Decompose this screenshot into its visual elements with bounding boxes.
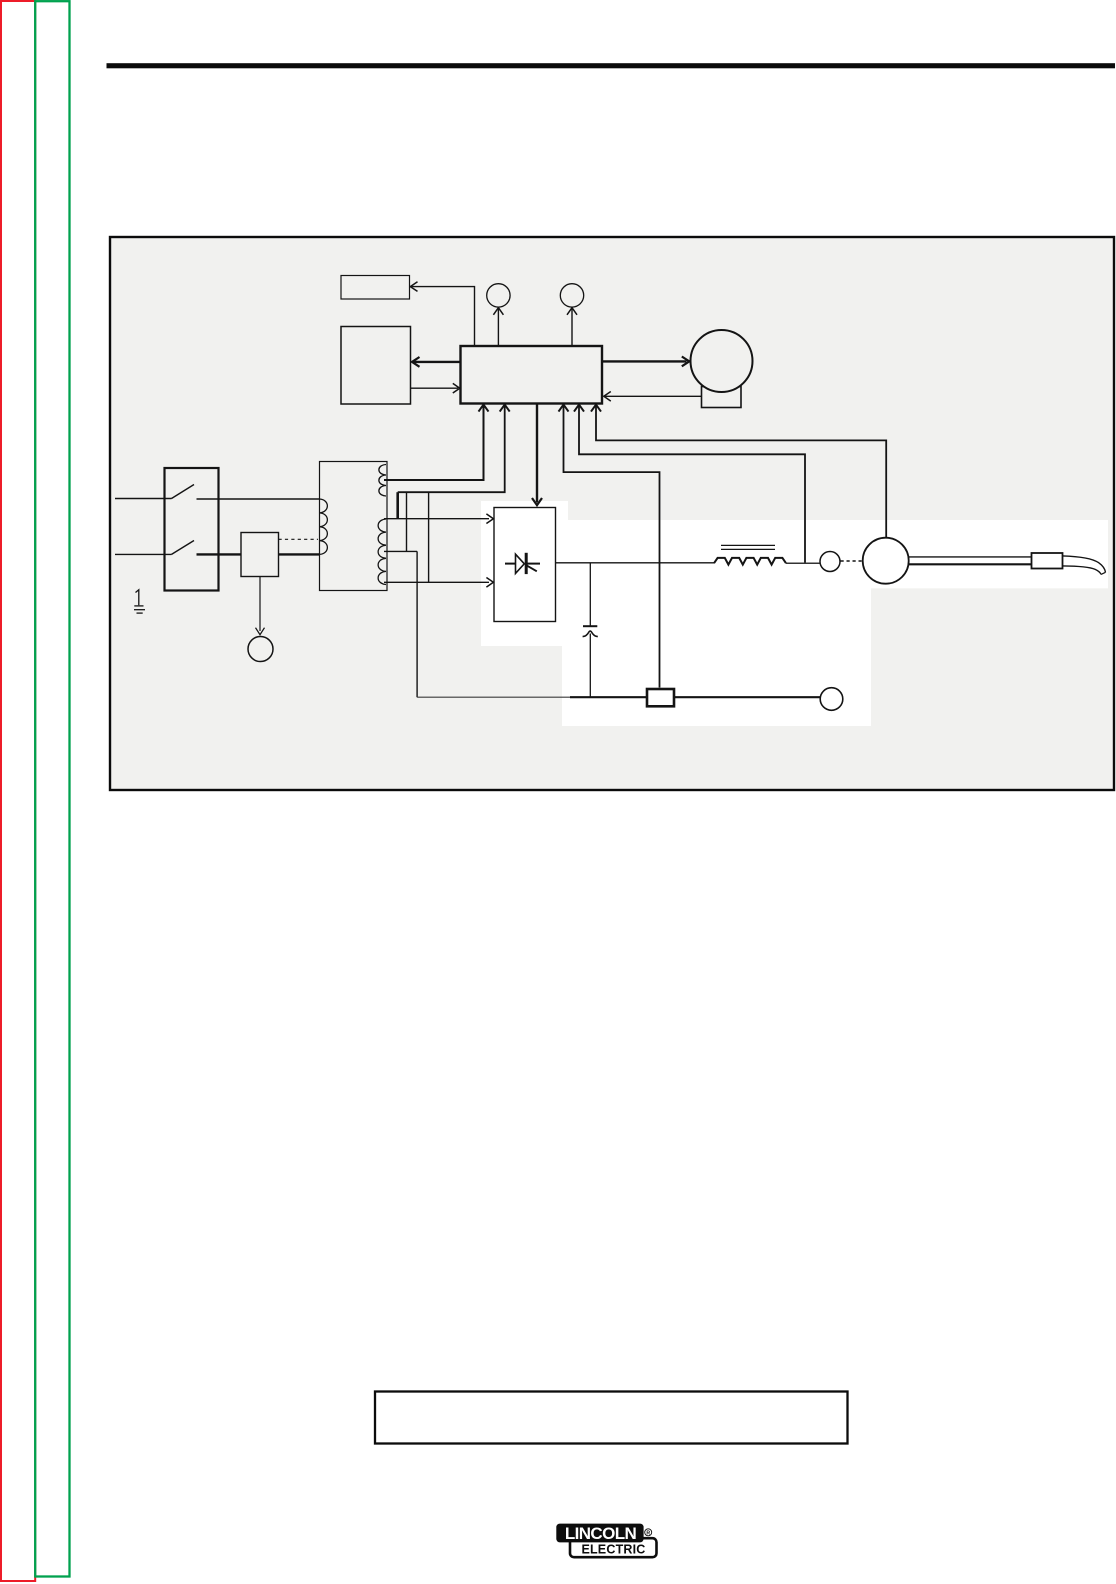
- gun cable bottom line: [908, 563, 1032, 565]
- wire drive roll circle: [863, 538, 909, 584]
- fan box: [241, 533, 279, 577]
- fan motor feed line: [259, 577, 261, 632]
- gun handle: [1032, 553, 1063, 569]
- wire choke to output stud: [786, 562, 820, 564]
- input line wire bottom: [115, 553, 172, 555]
- arrowhead into B2: [412, 357, 420, 367]
- thick arrow control board to wire feed motor: [603, 360, 687, 362]
- feedback wire 2: transformer tap to control board: [398, 406, 505, 493]
- transformer main secondary winding: [378, 519, 386, 584]
- dashed link stud to drive rolls: [841, 560, 863, 562]
- wire control board to box B1: [411, 287, 475, 346]
- motor circle: [691, 330, 753, 392]
- tach return wire motor to control board: [605, 395, 702, 397]
- green link column (Return to Master TOC): [35, 1, 69, 1576]
- svg-text:LINCOLN: LINCOLN: [565, 1524, 637, 1543]
- arrowhead into SCR top input: [486, 514, 493, 524]
- choke core line 2: [721, 548, 775, 550]
- thick wire switch to fan box: [197, 553, 242, 555]
- tap drop wire x406: [406, 492, 408, 551]
- work stud circle: [820, 688, 843, 711]
- arrowhead into control board right: [604, 392, 611, 402]
- transformer primary winding: [320, 499, 328, 554]
- thick wire fan box to transformer: [279, 553, 320, 555]
- arrowhead f1 up: [479, 405, 489, 412]
- arrowhead into SCR bottom input: [486, 578, 493, 588]
- choke core line 1: [721, 544, 775, 546]
- box B2 (left box): [341, 327, 411, 405]
- arrowhead down into fan motor: [256, 628, 265, 635]
- switch blade bottom: [172, 541, 195, 555]
- ELECTRIC box: [570, 1538, 657, 1557]
- output wire SCR to choke: [556, 562, 714, 564]
- arrowhead into lamp 2: [567, 308, 577, 315]
- secondary tap to SCR bottom input: [384, 581, 489, 583]
- arrowhead f2 up: [500, 405, 510, 412]
- thin bottom bus wire: [417, 696, 570, 698]
- current feedback wire: shunt up to control board: [564, 406, 660, 688]
- wire switch to transformer primary top: [197, 498, 320, 500]
- bottom bus wire to shunt: [570, 696, 647, 698]
- box B1 (top small box): [341, 276, 410, 300]
- transformer core box: [320, 462, 388, 591]
- SCR symbol: [505, 553, 540, 574]
- bottom empty note box: [375, 1392, 848, 1444]
- svg-text:R: R: [646, 1530, 650, 1536]
- gun nozzle: [1063, 556, 1106, 575]
- white label patch behind SCR bridge: [481, 501, 568, 646]
- thick arrow control board to box B2: [414, 361, 461, 363]
- tap drop wire x428: [428, 492, 430, 582]
- shunt box: [647, 689, 674, 706]
- motor tab box: [702, 387, 742, 408]
- input switch box: [165, 468, 219, 591]
- wire to lamp 1: [497, 309, 499, 347]
- arrowhead into B1: [410, 282, 417, 292]
- transformer auxiliary secondary winding: [379, 465, 386, 497]
- switch blade top: [172, 485, 195, 499]
- capacitor curved lower plate: [583, 631, 598, 637]
- capacitor top lead: [589, 563, 591, 626]
- diagram frame: [110, 237, 1114, 790]
- voltage feedback wire: output to control board: [579, 406, 805, 564]
- control PC board box: [461, 346, 603, 404]
- capacitor bottom lead: [589, 634, 591, 698]
- Lincoln Electric logo: [556, 1524, 656, 1558]
- secondary tap to SCR top input: [384, 518, 489, 520]
- LINCOLN badge: [556, 1524, 643, 1543]
- fan motor circle: [248, 637, 273, 662]
- red link column (Return to Section TOC): [1, 1, 35, 1581]
- thick tap drop at x=397.7: [396, 492, 399, 519]
- negative lead down to bottom bus: [416, 551, 418, 697]
- svg-text:ELECTRIC: ELECTRIC: [581, 1542, 645, 1556]
- wire to lamp 2: [571, 309, 573, 347]
- capacitor top plate: [583, 625, 597, 627]
- arrowhead into lamp 1: [493, 308, 503, 315]
- wire box B2 to control board: [411, 387, 458, 389]
- arrowhead f5 up: [574, 405, 584, 412]
- ground symbol: [134, 590, 145, 613]
- arrowhead into motor: [682, 357, 690, 367]
- arrowhead f4 up: [559, 405, 569, 412]
- white label patch center bottom: [562, 520, 871, 726]
- white label patch behind gun: [871, 520, 1108, 588]
- input line wire top: [115, 498, 172, 500]
- heavy header rule: [107, 63, 1116, 68]
- SCR firing line control board down to SCR bridge: [536, 404, 538, 503]
- registered mark: [645, 1529, 652, 1536]
- arrowhead f6 up: [591, 405, 601, 412]
- gun cable top line: [908, 556, 1032, 558]
- choke winding zigzag: [714, 558, 786, 565]
- SCR bridge box: [494, 508, 556, 622]
- arrowhead into control board left: [453, 383, 460, 393]
- arrowhead down into SCR bridge: [532, 498, 542, 505]
- wire drive motor supply: control board to drive rolls: [596, 406, 886, 540]
- wire shunt to work stud: [674, 696, 820, 698]
- indicator lamp circle 2: [560, 284, 583, 307]
- dashed mechanical link fan box to transformer: [279, 538, 319, 540]
- secondary tap wire y551: [384, 550, 417, 552]
- output stud circle: [820, 552, 840, 572]
- feedback wire 1: transformer tap to control board: [384, 406, 484, 481]
- indicator lamp circle 1: [487, 284, 510, 307]
